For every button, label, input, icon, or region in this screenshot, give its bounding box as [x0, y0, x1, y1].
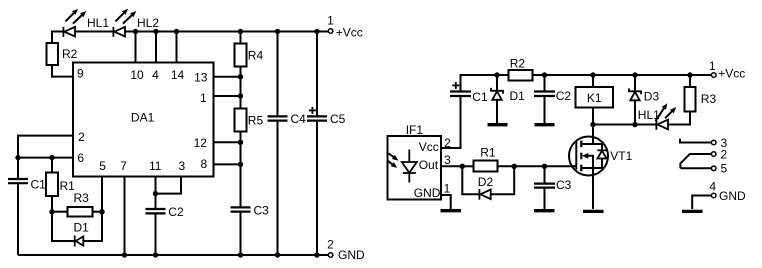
svg-text:GND: GND	[719, 189, 746, 203]
svg-text:D2: D2	[478, 175, 494, 189]
svg-text:C4: C4	[291, 112, 307, 126]
wire IF1 gnd pin1	[441, 195, 451, 209]
svg-text:11: 11	[149, 159, 162, 173]
svg-text:1: 1	[709, 59, 716, 73]
svg-text:+Vcc: +Vcc	[336, 26, 363, 40]
svg-text:R3: R3	[701, 92, 717, 106]
junction drain	[590, 122, 595, 127]
svg-text:10: 10	[130, 68, 144, 82]
svg-text:R5: R5	[248, 114, 264, 128]
junction D1 rail	[494, 72, 499, 77]
ground bar D1	[488, 123, 508, 126]
svg-text:7: 7	[120, 159, 127, 173]
svg-text:GND: GND	[414, 186, 441, 200]
zener diode D1 right	[491, 75, 503, 123]
resistor R4	[235, 44, 247, 67]
junction D2 right	[512, 164, 517, 169]
svg-text:4: 4	[152, 68, 159, 82]
contact 5	[680, 162, 727, 176]
junction dots on +Vcc rail	[133, 29, 320, 34]
junction R3 right	[99, 209, 104, 214]
pin number labels DA1	[77, 66, 208, 172]
wire HL1 row	[593, 124, 656, 126]
resistor R2 right	[509, 70, 533, 81]
svg-text:D1: D1	[510, 89, 526, 103]
contact 2 with switch arm	[680, 147, 727, 168]
IF1 inner labels	[414, 140, 441, 200]
svg-text:R3: R3	[74, 191, 90, 205]
wire pin 2	[18, 136, 73, 158]
resistor R2	[47, 43, 59, 65]
capacitor C3 right	[534, 166, 555, 209]
capacitor C2	[146, 209, 166, 213]
svg-text:1: 1	[444, 181, 451, 195]
capacitor C3	[231, 207, 251, 211]
ground bar IF1	[441, 209, 462, 212]
junction pin3/pin11	[153, 191, 158, 196]
capacitor C5 polarized	[307, 107, 327, 121]
wire R3 top	[689, 75, 691, 87]
svg-text:1: 1	[200, 91, 207, 105]
wire stub pin 14	[176, 32, 178, 63]
wire C1 column	[17, 158, 19, 255]
svg-text:D1: D1	[74, 220, 90, 234]
wire R4/R5/C3 column	[240, 32, 242, 256]
IF1 photodiode	[387, 150, 416, 183]
wire GND bottom rail	[18, 254, 328, 256]
svg-text:2: 2	[327, 237, 334, 251]
junction R3 left	[49, 209, 54, 214]
svg-text:R2: R2	[510, 56, 526, 70]
svg-text:9: 9	[77, 66, 84, 80]
LED HL1 right	[655, 103, 676, 130]
svg-text:C5: C5	[330, 112, 346, 126]
wire pin 1	[214, 95, 241, 97]
diode D2	[462, 166, 514, 199]
wire pin 11 / C2 column	[155, 177, 157, 256]
junction C3/gate	[542, 164, 547, 169]
svg-text:GND: GND	[338, 248, 365, 262]
junction C2 rail	[542, 72, 547, 77]
svg-text:R4: R4	[248, 49, 264, 63]
svg-text:VT1: VT1	[610, 149, 632, 163]
IC DA1	[73, 63, 214, 177]
wire pin 3	[156, 177, 182, 194]
MOSFET VT1	[569, 125, 608, 210]
svg-text:C1: C1	[31, 177, 47, 191]
wire out row	[462, 165, 576, 167]
wire R3 leads	[52, 211, 102, 213]
svg-text:8: 8	[200, 157, 207, 171]
wire pin 13	[214, 76, 241, 78]
wire C4 column	[277, 32, 279, 256]
terminal 1 +Vcc	[327, 14, 363, 40]
wire stub pin 4	[155, 32, 157, 63]
LED HL1	[63, 9, 86, 37]
junction pin 8	[238, 162, 243, 167]
terminal 2 GND	[327, 237, 365, 262]
wire pin 9 from R2	[52, 65, 73, 77]
resistor R1 right	[474, 161, 498, 172]
resistor R3	[68, 207, 93, 217]
wire +Vcc top rail	[52, 32, 328, 44]
junction node R1 top	[49, 155, 54, 160]
junction pin 1	[238, 93, 243, 98]
ground bar C3	[534, 209, 555, 212]
wire pin 12	[214, 141, 241, 143]
relay K1	[576, 75, 614, 125]
svg-text:R2: R2	[62, 47, 78, 61]
wire +Vcc top rail right	[461, 75, 712, 92]
wire D1 loop right	[83, 212, 102, 241]
svg-text:13: 13	[194, 70, 208, 84]
wire pin 7	[124, 177, 126, 256]
optocoupler IF1	[388, 136, 442, 200]
svg-text:6: 6	[77, 151, 84, 165]
ground bar C2	[535, 123, 555, 126]
diode D1	[75, 236, 84, 247]
svg-text:C3: C3	[254, 203, 270, 217]
junction R3 rail	[687, 72, 692, 77]
wire IF1 out pin3	[441, 165, 462, 167]
svg-text:DA1: DA1	[131, 111, 155, 125]
resistor R5	[235, 109, 247, 132]
svg-text:2: 2	[444, 136, 451, 150]
junction pin 13	[238, 74, 243, 79]
svg-text:HL1: HL1	[638, 108, 660, 122]
wire pin 6	[18, 157, 73, 159]
svg-text:3: 3	[444, 153, 451, 167]
junction D3 rail	[632, 72, 637, 77]
IF1 pin number labels	[444, 136, 452, 195]
capacitor C1	[8, 179, 28, 183]
capacitor C2 right	[534, 75, 555, 123]
svg-text:HL2: HL2	[137, 16, 159, 30]
svg-text:2: 2	[721, 147, 728, 161]
junction D3/HL1	[632, 122, 637, 127]
svg-text:2: 2	[78, 130, 85, 144]
junction out/D2	[460, 164, 465, 169]
junction pin 12	[238, 140, 243, 145]
capacitor C1 polarized right	[450, 82, 471, 96]
svg-text:C2: C2	[168, 205, 184, 219]
ground bar VT1 source	[583, 210, 604, 213]
wire IF1 pin2 to C1	[441, 96, 461, 148]
svg-text:Vcc: Vcc	[419, 140, 439, 154]
wire D1 loop left	[52, 212, 74, 241]
svg-text:R1: R1	[480, 146, 496, 160]
svg-text:4: 4	[709, 179, 716, 193]
junction K1 rail	[590, 72, 595, 77]
capacitor C4	[268, 116, 288, 120]
svg-text:5: 5	[99, 159, 106, 173]
resistor R3 right	[685, 87, 696, 112]
svg-text:1: 1	[327, 14, 334, 28]
svg-text:C3: C3	[556, 178, 572, 192]
svg-text:14: 14	[171, 68, 185, 82]
wire pin 5 stub	[101, 177, 103, 212]
terminal 1 +Vcc right	[709, 59, 745, 81]
wire C5 column	[316, 32, 318, 256]
svg-text:IF1: IF1	[406, 123, 424, 137]
zener diode D3	[629, 75, 641, 125]
contact 3	[680, 136, 728, 150]
svg-text:C2: C2	[556, 89, 572, 103]
svg-text:HL1: HL1	[87, 16, 109, 30]
LED HL2	[113, 9, 136, 37]
junction dots bottom rail	[122, 252, 320, 257]
wire pin 8	[214, 163, 241, 165]
svg-text:3: 3	[179, 159, 186, 173]
svg-text:Out: Out	[419, 158, 439, 172]
wire stub pin 10	[135, 32, 137, 63]
junction node pin6 left	[15, 155, 20, 160]
wire R1 leads	[51, 158, 53, 212]
svg-text:5: 5	[721, 162, 728, 176]
svg-text:12: 12	[194, 136, 208, 150]
svg-text:C1: C1	[472, 90, 488, 104]
terminal 4 GND right	[692, 179, 746, 209]
ground bar terminal 4	[682, 210, 703, 213]
svg-text:D3: D3	[644, 89, 660, 103]
svg-text:K1: K1	[587, 91, 602, 105]
resistor R1	[46, 173, 58, 197]
wire LED to R3	[668, 112, 690, 125]
svg-text:+Vcc: +Vcc	[718, 67, 745, 81]
